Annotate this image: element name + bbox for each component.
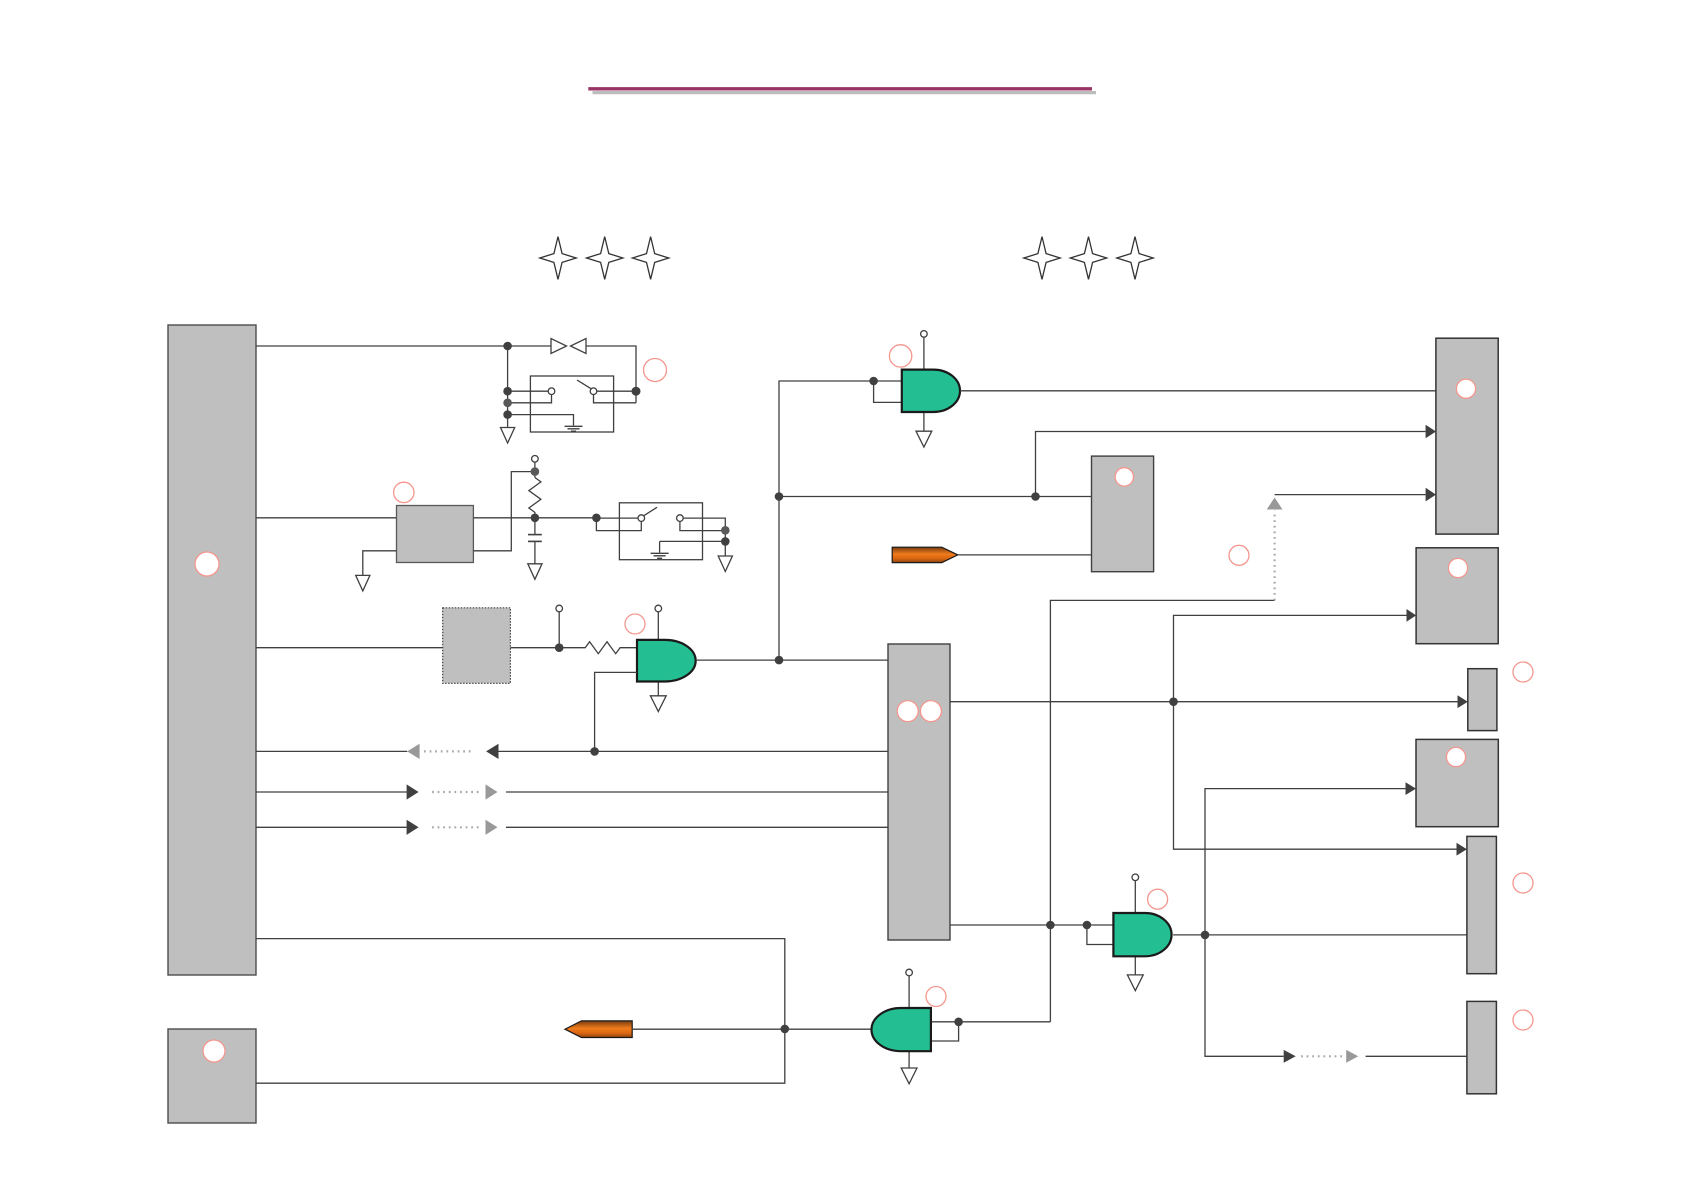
sparkle star 6 bbox=[1117, 237, 1153, 280]
M2 output bus (to R3 with branches) bbox=[950, 615, 1458, 849]
note circle 1 bbox=[644, 359, 667, 382]
center block M1 bbox=[1092, 456, 1154, 572]
dashed link to R6 bbox=[1284, 1050, 1467, 1063]
signal pointer B1 (orange) bbox=[892, 547, 1091, 562]
junction dots S1 area bbox=[503, 342, 878, 419]
row 1 bidirectional link bbox=[256, 744, 888, 759]
AND gate U1 bbox=[874, 331, 960, 432]
connector block J1 (left tall) bbox=[168, 325, 256, 975]
ground arrow C (capacitor) bbox=[528, 564, 542, 580]
M2 lower output to U6 bbox=[950, 924, 1113, 926]
ground arrow D (S2) bbox=[718, 556, 732, 572]
capacitor C1 bbox=[528, 518, 542, 564]
diode pair D1 bbox=[551, 339, 586, 354]
note circle 5 bbox=[1148, 889, 1168, 909]
module U2 output wires bbox=[363, 472, 597, 576]
connector block R3 (small) bbox=[1468, 669, 1497, 731]
row 3 bidirectional link bbox=[256, 820, 888, 835]
dashed up-arrow link bbox=[1267, 488, 1436, 601]
dotted module U3 bbox=[443, 608, 511, 684]
U4 output wire to M2 bbox=[696, 659, 888, 661]
wire net B (J1 to module U2) bbox=[256, 517, 397, 519]
wire net A (J1 to diode/switch S1) bbox=[256, 346, 636, 428]
wire net E (J1 bottom U-route to J2) bbox=[256, 939, 785, 1084]
ground arrow B (module) bbox=[356, 575, 370, 591]
junction dots S2 right bbox=[721, 526, 730, 546]
module U2 bbox=[397, 506, 474, 563]
U6 output net bbox=[1173, 789, 1467, 1057]
wire net D (to M1 input) bbox=[779, 496, 1092, 498]
note circle 9 bbox=[1513, 873, 1533, 893]
sparkle star 4 bbox=[1024, 237, 1060, 280]
AND gate U4 bbox=[637, 605, 696, 696]
ground arrow G (U6) bbox=[1127, 975, 1143, 991]
U5 riser to upper nets bbox=[1050, 600, 1274, 1021]
row 2 bidirectional link bbox=[256, 784, 888, 799]
switch box S2 bbox=[596, 503, 725, 560]
feedback riser V1 bbox=[779, 381, 874, 660]
note circle 6 bbox=[926, 987, 946, 1007]
note circle 4 bbox=[889, 345, 911, 367]
connector block J2 (bottom left) bbox=[168, 1029, 256, 1123]
big center block M2 bbox=[888, 644, 950, 940]
ground inside S2 bbox=[651, 553, 669, 558]
pull-up pin + resistor R1 bbox=[529, 456, 541, 518]
pin + wire U3 to R2 bbox=[510, 605, 562, 648]
note circle 10 bbox=[1513, 1010, 1533, 1030]
AND gate U6 bbox=[1087, 874, 1172, 975]
U1 output wire to R1 block bbox=[960, 390, 1436, 392]
ground arrow A (below S1 bus) bbox=[501, 428, 515, 444]
branch to block R1 (arrowed) bbox=[1036, 432, 1426, 497]
sparkle star 5 bbox=[1070, 237, 1106, 280]
note circle 3 bbox=[625, 614, 645, 634]
switch box S1 bbox=[530, 376, 613, 432]
resistor R2 (series) bbox=[559, 642, 637, 654]
ground arrow F (U1) bbox=[916, 431, 932, 447]
ground arrow H (U5) bbox=[901, 1068, 917, 1084]
ground arrow E (U4) bbox=[650, 696, 666, 712]
note circle 8 bbox=[1513, 662, 1533, 682]
AND gate U5 (mirrored) bbox=[785, 969, 1051, 1068]
connector block R4 (square) bbox=[1416, 739, 1498, 826]
connector block R6 (bottom narrow) bbox=[1467, 1001, 1497, 1093]
connector block R2 bbox=[1416, 548, 1498, 644]
sparkle star 1 bbox=[540, 237, 576, 280]
note circle 2 bbox=[394, 482, 414, 502]
wire net C (J1 to dotted box) bbox=[256, 647, 443, 649]
connector block R1 (right tall) bbox=[1436, 338, 1498, 534]
sparkle star 3 bbox=[632, 237, 668, 280]
title rule bbox=[588, 89, 1096, 93]
signal pointer B2 (orange, left) bbox=[565, 1021, 785, 1038]
note circle 7 bbox=[1229, 545, 1249, 565]
ground inside S1 bbox=[565, 426, 583, 431]
U4 second input riser bbox=[595, 672, 637, 751]
sparkle star 2 bbox=[587, 237, 623, 280]
junction dots R1 bbox=[531, 467, 601, 522]
connector block R5 (tall narrow) bbox=[1467, 836, 1497, 973]
